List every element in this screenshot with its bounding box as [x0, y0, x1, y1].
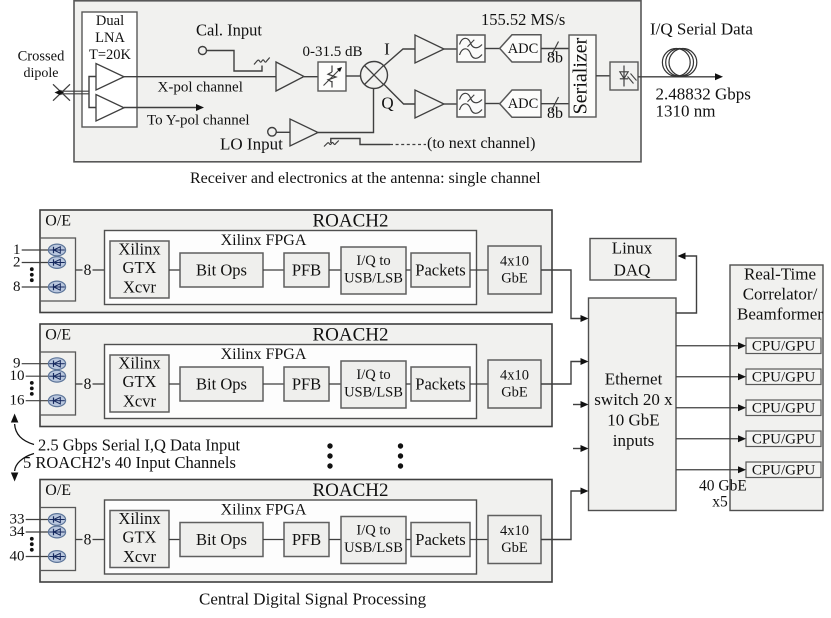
svg-text:4x10: 4x10	[500, 254, 529, 270]
svg-text:CPU/GPU: CPU/GPU	[752, 369, 816, 385]
svg-text:8: 8	[13, 279, 21, 295]
Xilinx FPGA board box 1	[105, 231, 477, 305]
Xilinx FPGA board box 3	[105, 500, 477, 574]
4x10 GbE box 1	[488, 246, 541, 294]
cal input wire	[206, 51, 262, 72]
fiber count 8 wire 3	[76, 539, 83, 541]
svg-text:8: 8	[84, 531, 92, 548]
svg-text:CPU/GPU: CPU/GPU	[752, 462, 816, 478]
Y-pol output wire	[124, 107, 197, 109]
photodiode O/E 1.3	[48, 281, 65, 293]
fiber count 8 wire 1	[76, 269, 83, 271]
input wire 10	[26, 375, 49, 377]
Xilinx GTX Xcvr box 1	[110, 240, 169, 299]
svg-text:Xilinx: Xilinx	[118, 354, 161, 373]
cal coupling squiggle	[254, 58, 270, 65]
receiver enclosure box	[74, 1, 641, 162]
svg-text:ROACH2: ROACH2	[312, 480, 388, 501]
Q diagonal wire	[384, 84, 415, 104]
PFB box 2	[284, 367, 329, 401]
photodiode O/E 1.2	[48, 257, 65, 269]
svg-text:PFB: PFB	[292, 261, 321, 280]
wire switch to CPU/GPU 1	[676, 345, 739, 347]
Linux DAQ box	[590, 239, 676, 281]
svg-text:To Y-pol channel: To Y-pol channel	[147, 113, 250, 129]
svg-text:8b: 8b	[547, 50, 563, 67]
svg-text:LNA: LNA	[95, 30, 125, 46]
I bus slash	[552, 42, 559, 56]
stub arrow roach4 to switch	[573, 404, 582, 406]
photodiode O/E 2.3	[48, 395, 65, 407]
svg-text:34: 34	[10, 524, 26, 540]
svg-text:O/E: O/E	[45, 482, 71, 499]
svg-text:GbE: GbE	[501, 271, 528, 287]
wire PFB to I/Q 2	[329, 383, 341, 385]
CPU/GPU box 5	[746, 462, 821, 478]
Xilinx GTX Xcvr box 2	[110, 354, 169, 413]
svg-text:Packets: Packets	[415, 530, 465, 549]
svg-text:I/Q to: I/Q to	[356, 253, 390, 269]
svg-text:Serializer: Serializer	[570, 37, 592, 114]
svg-text:155.52 MS/s: 155.52 MS/s	[481, 10, 565, 29]
ROACH2 assembly 1 outer box	[40, 210, 552, 313]
wire amp to attenuator	[304, 76, 318, 78]
continuation dots column 1	[327, 443, 332, 468]
svg-text:GTX: GTX	[123, 372, 157, 391]
CPU/GPU box 3	[746, 400, 821, 416]
PFB box 1	[284, 253, 329, 287]
Q amplifier	[415, 90, 444, 118]
input wire 2	[22, 262, 49, 264]
svg-text:USB/LSB: USB/LSB	[344, 385, 403, 401]
I low-pass filter	[457, 35, 485, 62]
svg-text:USB/LSB: USB/LSB	[344, 271, 403, 287]
X-pol channel wire	[124, 76, 276, 78]
svg-text:ROACH2: ROACH2	[312, 211, 388, 232]
Bit Ops box 3	[180, 523, 263, 557]
wire serializer to modulator	[596, 75, 610, 77]
svg-text:Correlator/: Correlator/	[743, 285, 818, 304]
wire attenuator to mixer	[346, 75, 361, 77]
svg-text:Real-Time: Real-Time	[744, 265, 816, 284]
variable attenuator box	[318, 62, 346, 91]
LO input connector	[268, 128, 277, 137]
wire switch to CPU/GPU 5	[676, 469, 739, 471]
wire assembly2 to switch	[541, 362, 582, 385]
svg-text:GbE: GbE	[501, 540, 528, 556]
LO tap squiggle	[324, 141, 339, 147]
Xilinx FPGA board box 2	[105, 345, 477, 419]
svg-text:10: 10	[10, 368, 25, 384]
dashed wire to next channel	[390, 144, 426, 146]
wire assembly3 to switch	[541, 491, 582, 540]
I digital bus wire	[541, 48, 569, 50]
wire switch to CPU/GPU 4	[676, 438, 739, 440]
svg-text:Receiver and electronics at th: Receiver and electronics at the antenna:…	[190, 170, 541, 187]
svg-text:4x10: 4x10	[500, 523, 529, 539]
crossed dipole antenna	[53, 84, 89, 100]
svg-text:8b: 8b	[547, 105, 563, 122]
svg-text:Xcvr: Xcvr	[123, 278, 156, 297]
svg-text:ADC: ADC	[508, 41, 539, 57]
CPU/GPU box 2	[746, 369, 821, 385]
input wire 16	[26, 400, 49, 402]
Dual LNA box U1	[82, 12, 137, 127]
input wire 40	[26, 556, 49, 558]
photodiode O/E 1.1	[48, 244, 65, 256]
I/Q to USB/LSB box 3	[341, 517, 406, 564]
svg-text:PFB: PFB	[292, 530, 321, 549]
laser modulator box	[610, 62, 638, 90]
ADC Q	[500, 90, 541, 117]
Q low-pass filter	[457, 90, 485, 117]
O/E box 3	[40, 508, 76, 571]
svg-text:Crossed: Crossed	[18, 48, 65, 64]
svg-text:O/E: O/E	[45, 213, 71, 230]
input wire 33	[26, 519, 49, 521]
LO tap wire	[331, 139, 390, 145]
svg-text:x5: x5	[712, 494, 728, 511]
X-pol amplifier	[276, 62, 304, 91]
ADC I	[500, 35, 541, 62]
photodiode O/E 2.1	[48, 358, 65, 370]
input dots 3	[30, 537, 34, 552]
svg-text:Packets: Packets	[415, 375, 465, 394]
svg-text:Bit Ops: Bit Ops	[196, 261, 247, 280]
svg-text:CPU/GPU: CPU/GPU	[752, 400, 816, 416]
I amplifier	[415, 35, 444, 63]
svg-text:40 GbE: 40 GbE	[699, 478, 747, 495]
svg-text:8: 8	[84, 262, 92, 279]
input wire 8	[22, 286, 49, 288]
svg-text:2.5 Gbps Serial I,Q Data Input: 2.5 Gbps Serial I,Q Data Input	[38, 436, 241, 455]
svg-text:Xilinx FPGA: Xilinx FPGA	[221, 346, 307, 363]
svg-text:Xilinx FPGA: Xilinx FPGA	[221, 232, 307, 249]
wire Xcvr to Bit Ops 1	[169, 269, 180, 271]
svg-text:(to next channel): (to next channel)	[427, 135, 535, 152]
stub arrow roach5 to switch	[573, 448, 582, 450]
svg-text:PFB: PFB	[292, 375, 321, 394]
mixer M1	[361, 62, 388, 89]
svg-text:Ethernet: Ethernet	[605, 370, 663, 389]
input wire 34	[26, 531, 49, 533]
Packets box 1	[411, 253, 470, 287]
Ethernet switch box	[589, 298, 677, 511]
continuation dots column 2	[398, 443, 403, 468]
LNA input bracket wire	[89, 77, 96, 108]
wire Bit Ops to PFB 1	[263, 269, 284, 271]
svg-text:Bit Ops: Bit Ops	[196, 375, 247, 394]
input wire 9	[22, 363, 49, 365]
I/Q to USB/LSB box 2	[341, 361, 406, 408]
ROACH2 assembly 2 outer box	[40, 324, 552, 427]
svg-text:Xilinx FPGA: Xilinx FPGA	[221, 502, 307, 519]
wire LO connector to amp	[276, 131, 290, 133]
Q digital bus wire	[541, 103, 569, 105]
LNA amplifier A (X-pol)	[96, 64, 124, 91]
svg-text:Xcvr: Xcvr	[123, 392, 156, 411]
Crossed dipole label	[18, 48, 65, 81]
svg-text:X-pol channel: X-pol channel	[158, 80, 243, 96]
svg-text:Central Digital Signal Process: Central Digital Signal Processing	[199, 590, 427, 609]
wire switch to Linux DAQ	[676, 256, 697, 313]
serializer box	[569, 35, 596, 117]
wire PFB to I/Q 1	[329, 269, 341, 271]
PFB box 3	[284, 523, 329, 557]
svg-text:Packets: Packets	[415, 261, 465, 280]
svg-text:GTX: GTX	[123, 528, 157, 547]
svg-text:Dual: Dual	[96, 13, 124, 29]
wire Q amp to filter	[444, 103, 457, 105]
cal input connector	[199, 47, 207, 55]
4x10 GbE box 2	[488, 360, 541, 408]
wire I amp to filter	[444, 48, 457, 50]
wire Packets to 4x10 GbE 3	[470, 539, 488, 541]
input dots 1	[30, 267, 34, 282]
Packets box 2	[411, 367, 470, 401]
svg-text:1310 nm: 1310 nm	[656, 101, 716, 120]
svg-text:LO Input: LO Input	[220, 135, 283, 154]
wire I/Q to Packets 2	[406, 383, 411, 385]
O/E box 1	[40, 238, 76, 301]
svg-text:40: 40	[10, 548, 25, 564]
wire filter to ADC Q	[485, 103, 500, 105]
wire Xcvr to Bit Ops 2	[169, 383, 180, 385]
photodiode O/E 3.1	[48, 514, 65, 526]
ROACH2 assembly 3 outer box	[40, 480, 552, 583]
svg-text:switch 20 x: switch 20 x	[594, 390, 673, 409]
LNA amplifier B (Y-pol)	[96, 95, 124, 122]
svg-text:O/E: O/E	[45, 327, 71, 344]
CPU/GPU box 4	[746, 431, 821, 447]
svg-text:ROACH2: ROACH2	[312, 325, 388, 346]
Q bus slash	[552, 97, 559, 111]
wire Packets to 4x10 GbE 1	[470, 269, 488, 271]
svg-text:ADC: ADC	[508, 96, 539, 112]
svg-text:dipole: dipole	[24, 66, 59, 81]
fiber coil	[662, 49, 696, 77]
Packets box 3	[411, 523, 470, 557]
wire Packets to 4x10 GbE 2	[470, 383, 488, 385]
Bit Ops box 1	[180, 253, 263, 287]
photodiode O/E 3.2	[48, 526, 65, 538]
svg-text:Xcvr: Xcvr	[123, 547, 156, 566]
svg-text:GbE: GbE	[501, 385, 528, 401]
Xilinx GTX Xcvr box 3	[110, 509, 169, 568]
svg-text:T=20K: T=20K	[89, 47, 132, 63]
svg-text:0-31.5 dB: 0-31.5 dB	[303, 44, 363, 60]
svg-text:4x10: 4x10	[500, 368, 529, 384]
svg-text:GTX: GTX	[123, 258, 157, 277]
LO wire to mixer	[318, 89, 374, 133]
fiber count 8 wire 2	[76, 383, 83, 385]
optical fiber output wire	[638, 76, 716, 78]
svg-text:I/Q Serial Data: I/Q Serial Data	[650, 19, 753, 38]
svg-text:Xilinx: Xilinx	[118, 240, 161, 259]
curved arrow up	[15, 424, 34, 445]
svg-text:2: 2	[13, 254, 21, 270]
40 GbE x5 label	[699, 478, 747, 511]
input dots 2	[30, 381, 34, 396]
4x10 GbE box 3	[488, 516, 541, 564]
svg-text:I/Q to: I/Q to	[356, 523, 390, 539]
curved arrow down	[15, 454, 34, 472]
svg-text:8: 8	[84, 376, 92, 393]
wire switch to CPU/GPU 2	[676, 376, 739, 378]
svg-text:Cal. Input: Cal. Input	[196, 21, 262, 40]
CPU/GPU box 1	[746, 338, 821, 354]
svg-text:Q: Q	[381, 94, 393, 113]
LO amplifier	[290, 119, 318, 146]
I diagonal wire	[384, 49, 415, 66]
svg-text:I: I	[384, 40, 390, 59]
wire I/Q to Packets 3	[406, 539, 411, 541]
photodiode O/E 3.3	[48, 551, 65, 563]
wire assembly1 to switch	[541, 270, 582, 319]
wire switch to CPU/GPU 3	[676, 407, 739, 409]
svg-text:Xilinx: Xilinx	[118, 509, 161, 528]
svg-text:Linux: Linux	[612, 239, 653, 258]
svg-text:inputs: inputs	[613, 431, 655, 450]
wire I/Q to Packets 1	[406, 269, 411, 271]
wire Xcvr to Bit Ops 3	[169, 539, 180, 541]
input wire 1	[22, 249, 49, 251]
O/E box 2	[40, 352, 76, 415]
svg-text:5 ROACH2's 40 Input Channels: 5 ROACH2's 40 Input Channels	[23, 453, 236, 472]
svg-text:USB/LSB: USB/LSB	[344, 540, 403, 556]
svg-text:CPU/GPU: CPU/GPU	[752, 431, 816, 447]
wire Bit Ops to PFB 2	[263, 383, 284, 385]
wire filter to ADC I	[485, 48, 500, 50]
svg-text:Bit Ops: Bit Ops	[196, 530, 247, 549]
photodiode O/E 2.2	[48, 370, 65, 382]
wire PFB to I/Q 3	[329, 539, 341, 541]
svg-text:Beamformer: Beamformer	[737, 305, 823, 324]
svg-text:16: 16	[10, 393, 26, 409]
Real-Time Correlator/Beamformer box	[730, 265, 823, 511]
wire Bit Ops to PFB 3	[263, 539, 284, 541]
svg-text:10 GbE: 10 GbE	[607, 411, 659, 430]
svg-text:DAQ: DAQ	[614, 261, 651, 280]
svg-text:I/Q to: I/Q to	[356, 367, 390, 383]
Bit Ops box 2	[180, 367, 263, 401]
I/Q to USB/LSB box 1	[341, 247, 406, 294]
svg-text:CPU/GPU: CPU/GPU	[752, 338, 816, 354]
